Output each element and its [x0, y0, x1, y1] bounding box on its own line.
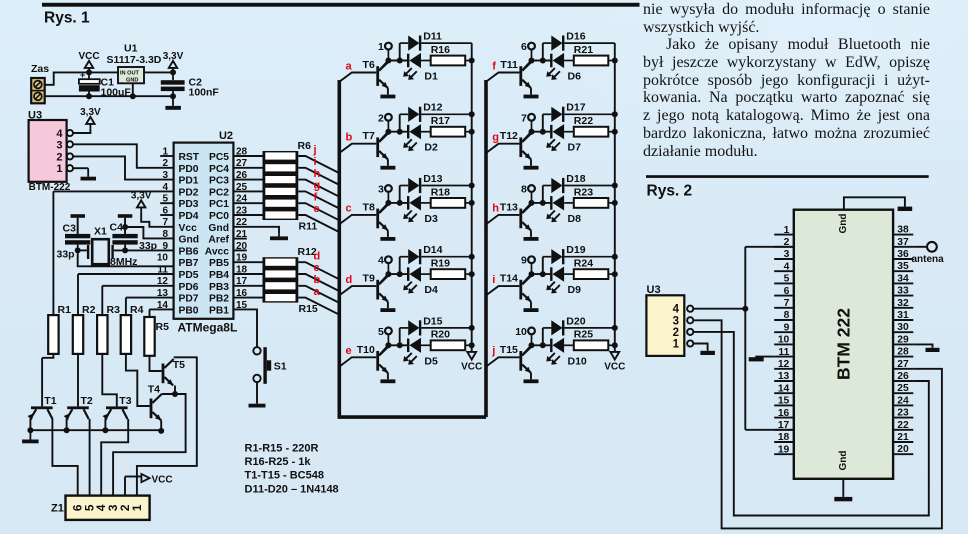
svg-text:U1: U1: [124, 43, 138, 55]
svg-text:IN OUT: IN OUT: [120, 71, 140, 77]
wire U3 pin2 to BTM pin26: [693, 332, 929, 516]
wire up to D16: [542, 43, 544, 60]
wire T2 emitter down: [66, 419, 68, 430]
wire S1 to ground: [256, 382, 258, 403]
svg-text:T15: T15: [500, 344, 518, 356]
wire U2 PB0 (pin14) to R5: [150, 308, 174, 310]
svg-text:20: 20: [236, 241, 248, 252]
U3 pin 4 circle: [67, 130, 73, 136]
wire U2 pin15 PB1 to S1: [233, 309, 257, 347]
wire bank output b to bus: [298, 286, 339, 303]
antenna terminal: [912, 242, 945, 265]
svg-text:e: e: [346, 345, 352, 357]
svg-text:5: 5: [378, 326, 384, 338]
BTM pin 11 stub: [774, 356, 794, 358]
LED D8: [546, 195, 581, 225]
BTM pin 34 stub: [893, 282, 913, 284]
svg-text:3: 3: [673, 315, 679, 327]
svg-text:5: 5: [162, 194, 168, 205]
svg-text:Gnd: Gnd: [179, 235, 200, 246]
U2 pin 5 stub: [160, 202, 173, 204]
junction D14 / VCC rail: [469, 254, 475, 260]
junction collector/9: [529, 271, 535, 277]
wire bank output d to bus: [298, 262, 339, 279]
svg-text:a: a: [346, 60, 353, 72]
svg-text:2: 2: [162, 158, 168, 169]
svg-text:T1: T1: [44, 395, 56, 407]
svg-text:16: 16: [778, 408, 790, 419]
BTM pin 13 stub: [774, 380, 794, 382]
wire U2 PD6 (pin12) to R3: [102, 285, 173, 287]
wire to T1 base: [41, 358, 43, 407]
node output terminal 9: [521, 255, 535, 274]
svg-text:R19: R19: [431, 258, 450, 270]
wire collector node to D6: [532, 60, 551, 62]
svg-text:4: 4: [378, 255, 384, 267]
junction D12 / VCC rail: [469, 111, 475, 117]
wire U1 GND to bottom rail: [132, 83, 134, 96]
BTM pin 6 stub: [774, 295, 794, 297]
svg-text:26: 26: [897, 371, 909, 382]
svg-text:D2: D2: [424, 142, 438, 154]
ground at BTM bottom: [834, 497, 852, 501]
svg-text:28: 28: [897, 347, 909, 358]
svg-text:8: 8: [784, 310, 790, 321]
junction VCC rail / C1: [86, 69, 92, 75]
svg-text:ATMega8L: ATMega8L: [178, 321, 238, 335]
svg-text:PC0: PC0: [209, 211, 229, 222]
wire bus tap net d to T9 base: [339, 286, 376, 295]
junction U1 GND / bottom rail: [130, 93, 136, 99]
svg-text:R20: R20: [431, 329, 450, 341]
svg-text:D4: D4: [424, 284, 438, 296]
ground at BTM pin29: [926, 348, 940, 352]
svg-text:4: 4: [784, 261, 790, 272]
svg-text:b: b: [314, 274, 321, 286]
wire collector node to D4: [388, 273, 407, 275]
wire R3 to T3 base: [102, 354, 117, 407]
svg-text:PC5: PC5: [209, 152, 229, 163]
transistor T9 BC548: [363, 273, 389, 302]
svg-text:22: 22: [897, 420, 909, 431]
svg-text:20: 20: [897, 444, 909, 455]
svg-text:PD1: PD1: [179, 176, 199, 187]
U2 pin 1 stub: [160, 155, 173, 157]
junction collector/5: [385, 342, 391, 348]
svg-text:D17: D17: [566, 102, 585, 114]
svg-text:T1-T15 - BC548: T1-T15 - BC548: [245, 470, 324, 482]
svg-text:6: 6: [162, 205, 168, 216]
svg-text:11: 11: [778, 347, 789, 358]
resistor R24 1k: [574, 258, 615, 280]
wire bank output f to bus: [298, 203, 339, 220]
U2 pin 20 stub: [233, 249, 246, 251]
svg-text:C4: C4: [110, 222, 124, 234]
wire up to D15: [399, 328, 401, 345]
svg-text:36: 36: [897, 249, 909, 260]
svg-text:PB2: PB2: [209, 294, 229, 305]
svg-text:10: 10: [778, 335, 790, 346]
regulator U1 S1117-3.3D: [107, 43, 162, 84]
resistor R16 1k: [431, 44, 472, 66]
svg-text:9: 9: [784, 322, 790, 333]
svg-text:T3: T3: [119, 395, 131, 407]
svg-text:12: 12: [778, 359, 790, 370]
wire bus tap net a to T6 base: [339, 73, 376, 82]
svg-text:VCC: VCC: [604, 361, 625, 372]
wire Z1 pin2 to VCC arrow: [125, 476, 141, 478]
svg-text:T4: T4: [148, 384, 160, 396]
resistor R20 1k: [431, 329, 472, 350]
wire U2 to bank R6-R11 row g: [233, 190, 262, 192]
svg-text:PD7: PD7: [179, 294, 199, 305]
svg-text:D13: D13: [423, 173, 442, 185]
svg-text:23: 23: [897, 408, 909, 419]
BTM pin 7 stub: [774, 307, 794, 309]
svg-text:j: j: [491, 345, 495, 357]
wire VCC rail of LED column: [614, 43, 616, 352]
svg-text:T8: T8: [363, 201, 375, 213]
LED D5: [403, 338, 438, 368]
svg-text:25: 25: [897, 383, 909, 394]
diode D20 1N4148: [543, 315, 615, 335]
wire U2 to bank R12-R15 row a: [233, 297, 262, 299]
wire collector node to D2: [388, 131, 407, 133]
svg-text:3: 3: [784, 249, 790, 260]
parts list values: [245, 442, 339, 495]
wire U3 pin2 to U2 PD1 (pin3): [73, 156, 174, 179]
svg-text:Zas: Zas: [31, 63, 49, 75]
node output terminal 7: [521, 112, 535, 131]
svg-text:T13: T13: [500, 201, 518, 213]
wire C3 to X1 left plate: [78, 249, 87, 251]
transistor T8 BC548: [363, 201, 389, 230]
wire U2 pin22 Gnd: [233, 227, 279, 234]
svg-text:37: 37: [897, 237, 909, 248]
BTM pin 24 stub: [893, 404, 913, 406]
svg-text:27: 27: [897, 359, 909, 370]
svg-text:+: +: [80, 70, 85, 80]
VCC supply symbol: [78, 51, 99, 73]
svg-text:PC4: PC4: [209, 164, 229, 175]
junction T2 emitter / rail: [64, 427, 70, 433]
svg-text:T7: T7: [363, 130, 375, 142]
microcontroller U2 ATMega8L: [174, 130, 238, 335]
svg-text:PC1: PC1: [209, 199, 229, 210]
BTM pin 38 stub: [893, 234, 913, 236]
ground at U2 pin22: [270, 234, 288, 240]
diode D11 1N4148: [400, 31, 472, 51]
transistor T7 BC548: [363, 130, 389, 159]
transistor T10 BC548: [357, 344, 389, 373]
capacitor C2 100nF: [161, 72, 220, 106]
transistor T5 BC548: [162, 359, 186, 385]
node output terminal 2: [378, 112, 392, 131]
capacitor C1 100uF (electrolytic): [79, 70, 132, 98]
svg-text:R23: R23: [574, 186, 593, 198]
diode D13 1N4148: [400, 173, 472, 193]
U3(Rys2) pin 1 circle: [687, 340, 693, 346]
wire down to R1: [52, 191, 54, 315]
wire collector node to D7: [532, 131, 551, 133]
svg-text:R5: R5: [156, 321, 170, 333]
svg-text:X1: X1: [94, 226, 107, 238]
svg-text:19: 19: [778, 444, 790, 455]
U2 pin 6 stub: [160, 214, 173, 216]
junction collector/4: [385, 271, 391, 277]
svg-text:PD6: PD6: [179, 282, 199, 293]
BTM pin 20 stub: [893, 453, 913, 455]
LED D6: [546, 53, 581, 83]
wire BTM top Gnd: [844, 197, 905, 209]
BTM pin 22 stub: [893, 429, 913, 431]
junction collector/2: [385, 129, 391, 135]
svg-text:5: 5: [784, 274, 790, 285]
wire up to D17: [542, 114, 544, 131]
ground at BTM pin11: [749, 357, 764, 361]
svg-text:3: 3: [162, 170, 168, 181]
junction collector/D12 branch: [397, 129, 403, 135]
wire bus tap net h to T13 base: [486, 215, 519, 224]
svg-text:h: h: [492, 203, 499, 215]
svg-text:6: 6: [784, 286, 790, 297]
wire C3 node under X1 to U2 PB7 (pin10): [78, 250, 174, 266]
junction collector/10: [529, 342, 535, 348]
junction R21 / VCC rail: [612, 58, 618, 64]
wire to BTM pin2: [745, 246, 794, 248]
node output terminal 8: [521, 184, 535, 203]
wire up to D20: [542, 328, 544, 345]
svg-text:PC2: PC2: [209, 187, 229, 198]
ground at T7: [380, 166, 395, 170]
svg-text:antena: antena: [912, 254, 945, 265]
svg-text:Z1: Z1: [51, 503, 64, 515]
svg-text:d: d: [346, 274, 353, 286]
ground at emitter rail: [22, 430, 38, 443]
svg-text:4: 4: [56, 128, 63, 140]
wire bank output j to bus: [298, 156, 339, 173]
svg-text:GND: GND: [126, 78, 138, 84]
svg-text:8: 8: [162, 229, 168, 240]
wire T3 emitter down: [104, 419, 106, 430]
svg-text:15: 15: [778, 396, 790, 407]
wire bus tap net i to T14 base: [486, 286, 519, 295]
svg-text:D15: D15: [423, 315, 442, 327]
wire bank output i to bus: [298, 168, 339, 185]
svg-text:T12: T12: [500, 130, 518, 142]
BTM pin 37 stub: [893, 246, 913, 248]
wire common emitter rail: [29, 429, 162, 431]
wire T7 collector: [379, 132, 388, 142]
junction collector/6: [529, 58, 535, 64]
junction R24 / VCC rail: [612, 271, 618, 277]
junction C4 top / Gnd pin net: [122, 224, 128, 230]
wire T8 collector: [379, 203, 388, 213]
resistor R22 1k: [574, 115, 615, 137]
U2 pin 21 stub: [233, 238, 246, 240]
svg-text:R16-R25 - 1k: R16-R25 - 1k: [245, 456, 312, 468]
wire down to R5: [149, 309, 151, 317]
wire BTM pin11 to ground: [756, 356, 774, 359]
wire T4 emitter down: [160, 420, 162, 431]
BTM pin 9 stub: [774, 331, 794, 333]
svg-text:100uF: 100uF: [101, 87, 132, 99]
svg-text:R18: R18: [431, 186, 450, 198]
BTM pin 1 stub: [774, 234, 794, 236]
diode D19 1N4148: [543, 244, 615, 264]
junction collector/D17 branch: [540, 129, 546, 135]
BTM pin 31 stub: [893, 319, 913, 321]
bus bottom: [338, 415, 487, 419]
svg-text:VCC: VCC: [461, 361, 482, 372]
resistor bank R6-R11: [263, 151, 299, 220]
junction R17 / VCC rail: [469, 129, 475, 135]
transistor T13 BC548: [500, 201, 532, 230]
U3 pin 2 circle: [67, 153, 73, 159]
wire U2 to bank R12-R15 row c: [233, 273, 262, 275]
svg-text:R4: R4: [130, 304, 144, 316]
wire bank output a to bus: [298, 298, 339, 315]
wire U2 to bank R6-R11 row e: [233, 214, 262, 216]
wire 3,3V to U2 Vcc (pin7): [141, 212, 173, 227]
ground above C3: [71, 214, 86, 234]
junction C3 / X1 / PB7 net: [75, 247, 81, 253]
svg-text:Gnd: Gnd: [838, 451, 849, 471]
junction D15 / VCC rail: [469, 325, 475, 331]
ground at T13: [524, 237, 539, 241]
junction collector/D14 branch: [397, 271, 403, 277]
wire R4 to T4 base: [126, 354, 150, 406]
ground at T11: [524, 94, 539, 98]
wire bank output h to bus: [298, 180, 339, 197]
svg-text:33: 33: [897, 286, 909, 297]
resistor R19 1k: [431, 258, 472, 280]
connector Zas (power terminal block): [31, 63, 49, 103]
junction T4 emitter / rail: [158, 428, 164, 434]
wire U3 pin4 to 3,3V: [73, 128, 90, 133]
svg-text:C3: C3: [63, 223, 77, 235]
svg-text:i: i: [492, 274, 495, 286]
svg-text:c: c: [346, 203, 352, 215]
BTM pin 36 stub: [893, 258, 913, 260]
wire R2 to T2 base: [77, 354, 79, 407]
node output terminal 1: [378, 41, 392, 60]
wire T15 emitter down: [530, 373, 532, 379]
wire Zas+ to VCC rail / U1 IN: [45, 72, 118, 84]
junction T3 emitter / rail: [102, 427, 108, 433]
junction U3 pin4 / BTM net: [742, 306, 748, 312]
ground at U3 pin1: [81, 168, 97, 180]
resistor R4 220R: [121, 304, 144, 354]
svg-text:R2: R2: [82, 304, 96, 316]
wire T5 collector to Z1 pin1: [137, 357, 197, 495]
wire collector node to D1: [388, 60, 407, 62]
resistor R5 220R: [144, 317, 169, 356]
svg-text:D20: D20: [566, 315, 585, 327]
junction D19 / VCC rail: [612, 254, 618, 260]
svg-text:Rys. 1: Rys. 1: [44, 9, 90, 26]
node output terminal 5: [378, 326, 392, 345]
wire BTM bottom Gnd: [842, 479, 844, 497]
junction R20 / VCC rail: [469, 342, 475, 348]
node output terminal 6: [521, 41, 535, 60]
svg-text:D16: D16: [566, 31, 585, 43]
wire T9 collector: [379, 274, 388, 284]
wire down to R2: [77, 274, 79, 315]
wire U2 to bank R12-R15 row d: [233, 261, 262, 263]
wire Z1 pin2 up: [124, 477, 126, 496]
wire U2 to bank R6-R11 row f: [233, 202, 262, 204]
wire T7 emitter down: [387, 159, 389, 165]
svg-text:f: f: [492, 60, 496, 72]
wire bus tap net b to T7 base: [339, 144, 376, 153]
ground above C4: [118, 214, 133, 234]
junction collector/D15 branch: [397, 342, 403, 348]
svg-text:3: 3: [56, 139, 62, 151]
junction D13 / VCC rail: [469, 183, 475, 189]
connector Z1: [51, 496, 150, 520]
Rys. 1 top rule: [42, 3, 640, 7]
BTM pin 26 stub: [893, 380, 913, 382]
BTM pin 15 stub: [774, 404, 794, 406]
svg-text:7: 7: [162, 217, 168, 228]
svg-text:31: 31: [897, 310, 909, 321]
LED D9: [546, 267, 581, 297]
LED D2: [403, 124, 438, 154]
wire U3 pin1 to ground: [73, 167, 88, 169]
resistor R25 1k: [574, 329, 615, 350]
junction 3,3V rail / C2: [170, 69, 176, 75]
transistor T1 BC548: [28, 395, 57, 420]
resistor R18 1k: [431, 186, 472, 208]
wire bank output g to bus: [298, 191, 339, 208]
BTM pin 35 stub: [893, 270, 913, 272]
node output terminal 10: [515, 326, 535, 345]
svg-text:21: 21: [897, 432, 909, 443]
svg-text:T10: T10: [357, 344, 375, 356]
svg-text:R1: R1: [58, 304, 72, 316]
wire T4 collector to Z1 pin3: [113, 394, 186, 496]
svg-text:7: 7: [784, 298, 790, 309]
BTM pin 25 stub: [893, 392, 913, 394]
switch S1: [253, 347, 286, 384]
svg-text:18: 18: [778, 432, 790, 443]
wire up to D12: [399, 114, 401, 131]
BTM pin 21 stub: [893, 441, 913, 443]
junction R18 / VCC rail: [469, 200, 475, 206]
junction D17 / VCC rail: [612, 111, 618, 117]
wire up to D13: [399, 186, 401, 203]
U3(Rys2) pin 4 circle: [687, 306, 693, 312]
wire bus tap net c to T8 base: [339, 215, 376, 224]
junction bottom rail / C1: [86, 93, 92, 99]
svg-text:PB3: PB3: [209, 282, 229, 293]
bus B (nets f-j) right vertical: [484, 80, 488, 417]
wire collector node to D8: [532, 202, 551, 204]
U3(Rys2) pin 2 circle: [687, 329, 693, 335]
svg-text:d: d: [314, 250, 321, 262]
svg-text:PD0: PD0: [179, 164, 199, 175]
wire U2 to bank R12-R15 row b: [233, 285, 262, 287]
svg-text:PB5: PB5: [209, 258, 229, 269]
diode D17 1N4148: [543, 102, 615, 122]
svg-text:g: g: [314, 180, 321, 192]
wire VCC rail of LED column: [471, 43, 473, 352]
node output terminal 4: [378, 255, 392, 274]
svg-text:Aref: Aref: [208, 235, 229, 246]
svg-text:S1117-3.3D: S1117-3.3D: [107, 54, 162, 66]
svg-text:D6: D6: [568, 71, 582, 83]
